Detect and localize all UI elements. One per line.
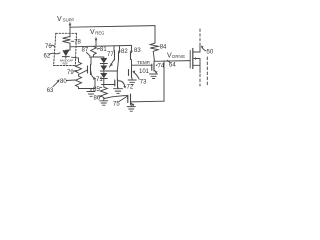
svg-text:71: 71 xyxy=(96,77,103,83)
node VDRIVE label xyxy=(167,53,185,60)
svg-text:83: 83 xyxy=(134,48,141,54)
label 63 arrow xyxy=(47,79,60,94)
svg-text:SUPP: SUPP xyxy=(63,18,75,23)
MOSFET drain stub xyxy=(193,44,200,53)
svg-text:REG: REG xyxy=(95,30,104,35)
resistor R80 xyxy=(76,76,82,88)
svg-text:82: 82 xyxy=(121,49,128,55)
svg-text:77: 77 xyxy=(107,52,114,58)
VSUPP arrow xyxy=(69,22,72,37)
wire node 87 xyxy=(90,56,104,58)
wire VDRIVE xyxy=(155,60,191,63)
transistor Q74 xyxy=(152,61,158,74)
ground G4 under Q73 xyxy=(128,80,136,85)
label 73 xyxy=(132,70,147,85)
label 74 xyxy=(156,64,165,70)
transistor Q82 xyxy=(117,46,121,71)
svg-text:TEMP.: TEMP. xyxy=(137,60,150,65)
svg-text:V: V xyxy=(167,53,172,60)
svg-text:101: 101 xyxy=(139,69,150,75)
dashed drain boundary xyxy=(199,29,201,44)
label 75 xyxy=(113,97,127,108)
MOSFET body arrow xyxy=(193,57,200,65)
label 85 xyxy=(93,87,102,93)
wire stack bottom xyxy=(102,84,115,86)
svg-text:78: 78 xyxy=(74,40,81,46)
label 62 xyxy=(44,53,61,60)
dashed box regulator 76 xyxy=(54,33,77,65)
wire bottom left xyxy=(79,88,96,90)
svg-text:V: V xyxy=(57,16,62,23)
bandgap tiny text xyxy=(60,58,73,65)
label 64 xyxy=(167,60,176,68)
resistor R78 xyxy=(63,37,71,51)
ground G2 under R86 xyxy=(100,100,108,106)
transistor Q75 xyxy=(128,94,135,107)
VREG arrow xyxy=(95,37,98,46)
svg-text:80: 80 xyxy=(60,79,67,85)
MOSFET Q50 xyxy=(190,49,193,69)
dashed right boundary xyxy=(206,57,208,85)
diode D62 xyxy=(62,50,70,58)
wire TEMP net xyxy=(132,64,153,66)
wire VDRIVE drop xyxy=(163,61,165,101)
transistor Q71 xyxy=(88,57,97,89)
label 76 xyxy=(45,44,55,50)
dashed source boundary xyxy=(199,74,201,86)
label 80 xyxy=(60,79,75,85)
label 84 xyxy=(157,45,167,51)
svg-text:76: 76 xyxy=(45,44,52,50)
svg-text:50: 50 xyxy=(207,50,214,56)
svg-text:DRIVE: DRIVE xyxy=(172,54,185,59)
svg-text:64: 64 xyxy=(169,62,176,68)
label 78 xyxy=(71,40,81,46)
label 87 xyxy=(82,48,91,56)
ground G3 under Q72 xyxy=(114,88,123,94)
node VSUPP label xyxy=(57,16,74,23)
node VREG label xyxy=(90,29,104,36)
svg-text:84: 84 xyxy=(160,45,167,51)
resistor R84 xyxy=(150,43,158,61)
wire tap to Q71 gate xyxy=(79,70,88,76)
diode stack D1 xyxy=(100,57,107,64)
svg-text:75: 75 xyxy=(113,102,120,108)
svg-text:79: 79 xyxy=(67,70,74,76)
svg-text:V: V xyxy=(90,29,95,36)
MOSFET source stub xyxy=(193,65,200,72)
label 50 xyxy=(201,45,214,55)
svg-text:72: 72 xyxy=(127,85,134,91)
label 79 xyxy=(67,70,77,76)
wire top VSUPP rail xyxy=(70,26,155,28)
transistor Q72 xyxy=(115,71,126,89)
ground G5 under Q74 xyxy=(150,74,158,79)
svg-text:REF: REF xyxy=(63,62,69,66)
wire Q75 source net xyxy=(131,100,165,103)
resistor R86 xyxy=(100,85,107,99)
svg-text:87: 87 xyxy=(82,48,89,54)
transistor Q73 xyxy=(129,69,133,80)
svg-text:73: 73 xyxy=(140,80,147,86)
diode stack D2 xyxy=(100,64,107,72)
wire Q75 gate xyxy=(104,96,128,99)
wire diode to R79 xyxy=(72,57,79,62)
wire VREG rail xyxy=(70,45,132,46)
resistor R79 xyxy=(76,62,82,73)
wire drop to R84 xyxy=(154,26,156,43)
transistor Q83 xyxy=(130,46,133,68)
label 86 xyxy=(94,96,102,102)
svg-text:63: 63 xyxy=(47,88,54,94)
ground G1 xyxy=(87,89,95,97)
diode stack D3 xyxy=(100,71,107,85)
ground G6 under Q75 xyxy=(127,105,135,112)
wire tap to Q72 drain xyxy=(104,70,117,72)
label 81 xyxy=(97,47,107,53)
resistor R81 xyxy=(91,46,97,57)
transistor Q77 xyxy=(110,46,115,67)
